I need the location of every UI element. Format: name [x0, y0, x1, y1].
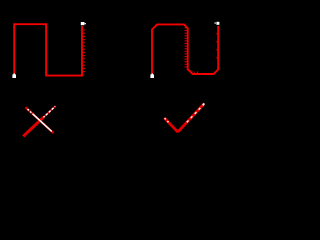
- stroke backslash: [25, 107, 53, 133]
- wire: right figure chamfered-corner path: [152, 24, 218, 74]
- wire: right figure hatch ticks around bottom-left chamfer: [187, 69, 192, 73]
- node A: left figure start point (bottom-left white marker): [12, 73, 16, 78]
- wire: left figure hatch ticks on right vertical: [83, 30, 85, 75]
- stroke slash: [42, 106, 56, 119]
- wire: right figure faint stitch ticks on right vertical: [216, 33, 218, 65]
- wire: left figure sharp-corner path: [14, 24, 82, 75]
- node B: left figure end point (top-right white marker): [81, 22, 86, 25]
- X mark (wrong) below left figure: [23, 106, 55, 136]
- node C: right figure start point (bottom-left white marker): [150, 73, 154, 78]
- node D: right figure end point (top-right white marker): [215, 22, 220, 25]
- check mark (correct) below right figure: [164, 103, 204, 132]
- wire: right figure hatch ticks on inner vertical (pointing left): [185, 27, 187, 69]
